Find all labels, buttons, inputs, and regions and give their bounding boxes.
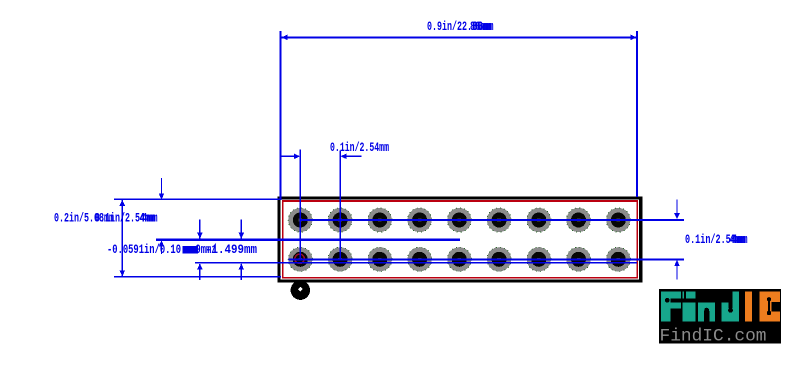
- overlapping offset dimension text: [107, 242, 257, 257]
- pad R2C4: [408, 247, 432, 271]
- dimension: body height 0.2in/5.08mm (left): [54, 199, 281, 278]
- dimension: pad pitch 0.1in/2.54mm (top): [281, 140, 389, 259]
- svg-text:0.1in/2.54mm: 0.1in/2.54mm: [330, 140, 389, 155]
- pad R1C6: [487, 208, 511, 232]
- mid reference line (thick): [156, 239, 460, 241]
- pad R1C9: [606, 208, 630, 232]
- pad R1C8: [566, 208, 590, 232]
- pad R2C2: [328, 247, 352, 271]
- dimension: row offset 0.1in/2.54mm (left, overlapping text): [95, 210, 158, 225]
- dimension: offset -0.0591in/-1.499mm arrows: [197, 220, 244, 281]
- pad R2C7: [527, 247, 551, 271]
- svg-text:4mm: 4mm: [142, 210, 158, 225]
- pin 1 indicator circle below body: [291, 281, 310, 300]
- pad R2C8: [566, 247, 590, 271]
- pad R1C7: [527, 208, 551, 232]
- pad R2C6: [487, 247, 511, 271]
- pad R1C5: [447, 208, 471, 232]
- svg-text:-1.499mm: -1.499mm: [205, 242, 257, 257]
- pin 1 marker ring: [295, 254, 304, 263]
- pad R1C1: [288, 208, 312, 232]
- svg-text:4mm: 4mm: [732, 232, 748, 247]
- pad R1C2: [328, 208, 352, 232]
- row 2 centerline: [289, 258, 685, 260]
- row 1 centerline: [300, 219, 684, 221]
- svg-text:FindIC.com: FindIC.com: [660, 328, 767, 347]
- FindIC logo: [659, 289, 781, 347]
- pad R2C9: [606, 247, 630, 271]
- lower reference line (thin): [195, 262, 637, 263]
- connector body outline (black): [279, 198, 641, 281]
- connector body courtyard (dark red): [283, 201, 637, 278]
- svg-text:86mm: 86mm: [473, 19, 494, 34]
- dimension: overall width 0.9in/22.86mm: [280, 19, 639, 200]
- offset dimension arrows at x=161.5: [159, 178, 165, 254]
- pad R1C3: [368, 208, 392, 232]
- svg-text:-0.0591in/0.10: -0.0591in/0.10: [107, 242, 181, 257]
- pad R2C5: [447, 247, 471, 271]
- pad R1C4: [408, 208, 432, 232]
- pad R2C1: [288, 247, 312, 271]
- dimension: row spacing 0.1in/2.54mm (right): [674, 200, 747, 280]
- pad R2C3: [368, 247, 392, 271]
